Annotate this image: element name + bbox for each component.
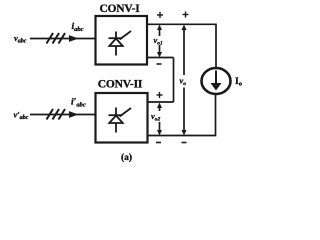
three-phase slash marks input 1 xyxy=(47,33,66,44)
plus sign v_o1 xyxy=(157,12,163,18)
minus sign v_o2 xyxy=(156,142,161,144)
svg-text:CONV-II: CONV-II xyxy=(98,79,143,91)
svg-text:vo2: vo2 xyxy=(151,111,161,123)
converter box CONV-I xyxy=(96,16,148,65)
svg-text:v′abc: v′abc xyxy=(14,110,29,122)
minus sign v_o xyxy=(182,142,187,144)
wire CONV-II positive stub xyxy=(148,101,174,103)
arrowhead input 2 xyxy=(69,111,79,118)
voltage arrow v_o1 xyxy=(157,25,162,58)
current source I_o xyxy=(202,68,231,94)
input wire 2 three-phase xyxy=(30,114,96,116)
svg-text:(a): (a) xyxy=(121,152,132,163)
wire CONV-I negative stub xyxy=(147,57,174,59)
plus sign v_o xyxy=(183,12,189,18)
svg-text:vo: vo xyxy=(180,76,187,88)
wire series link between converters xyxy=(173,58,175,103)
wire top output bus xyxy=(147,24,216,68)
three-phase slash marks input 2 xyxy=(47,109,66,120)
input wire 1 three-phase xyxy=(30,38,96,40)
thyristor symbol U2 in CONV-II xyxy=(109,108,132,133)
svg-text:Io: Io xyxy=(235,77,242,88)
minus sign v_o1 xyxy=(157,63,162,65)
wire bottom output bus xyxy=(148,94,216,136)
svg-text:iabc: iabc xyxy=(72,22,84,33)
svg-text:vabc: vabc xyxy=(14,33,27,45)
svg-text:i′abc: i′abc xyxy=(71,98,86,109)
svg-text:vo1: vo1 xyxy=(154,35,164,47)
voltage arrow v_o xyxy=(182,25,187,136)
thyristor symbol U1 in CONV-I xyxy=(109,31,132,56)
voltage arrow v_o2 xyxy=(157,103,162,136)
svg-text:CONV-I: CONV-I xyxy=(99,3,140,15)
arrowhead input 1 xyxy=(69,35,79,42)
converter box CONV-II xyxy=(96,93,148,143)
plus sign v_o2 xyxy=(157,92,163,98)
